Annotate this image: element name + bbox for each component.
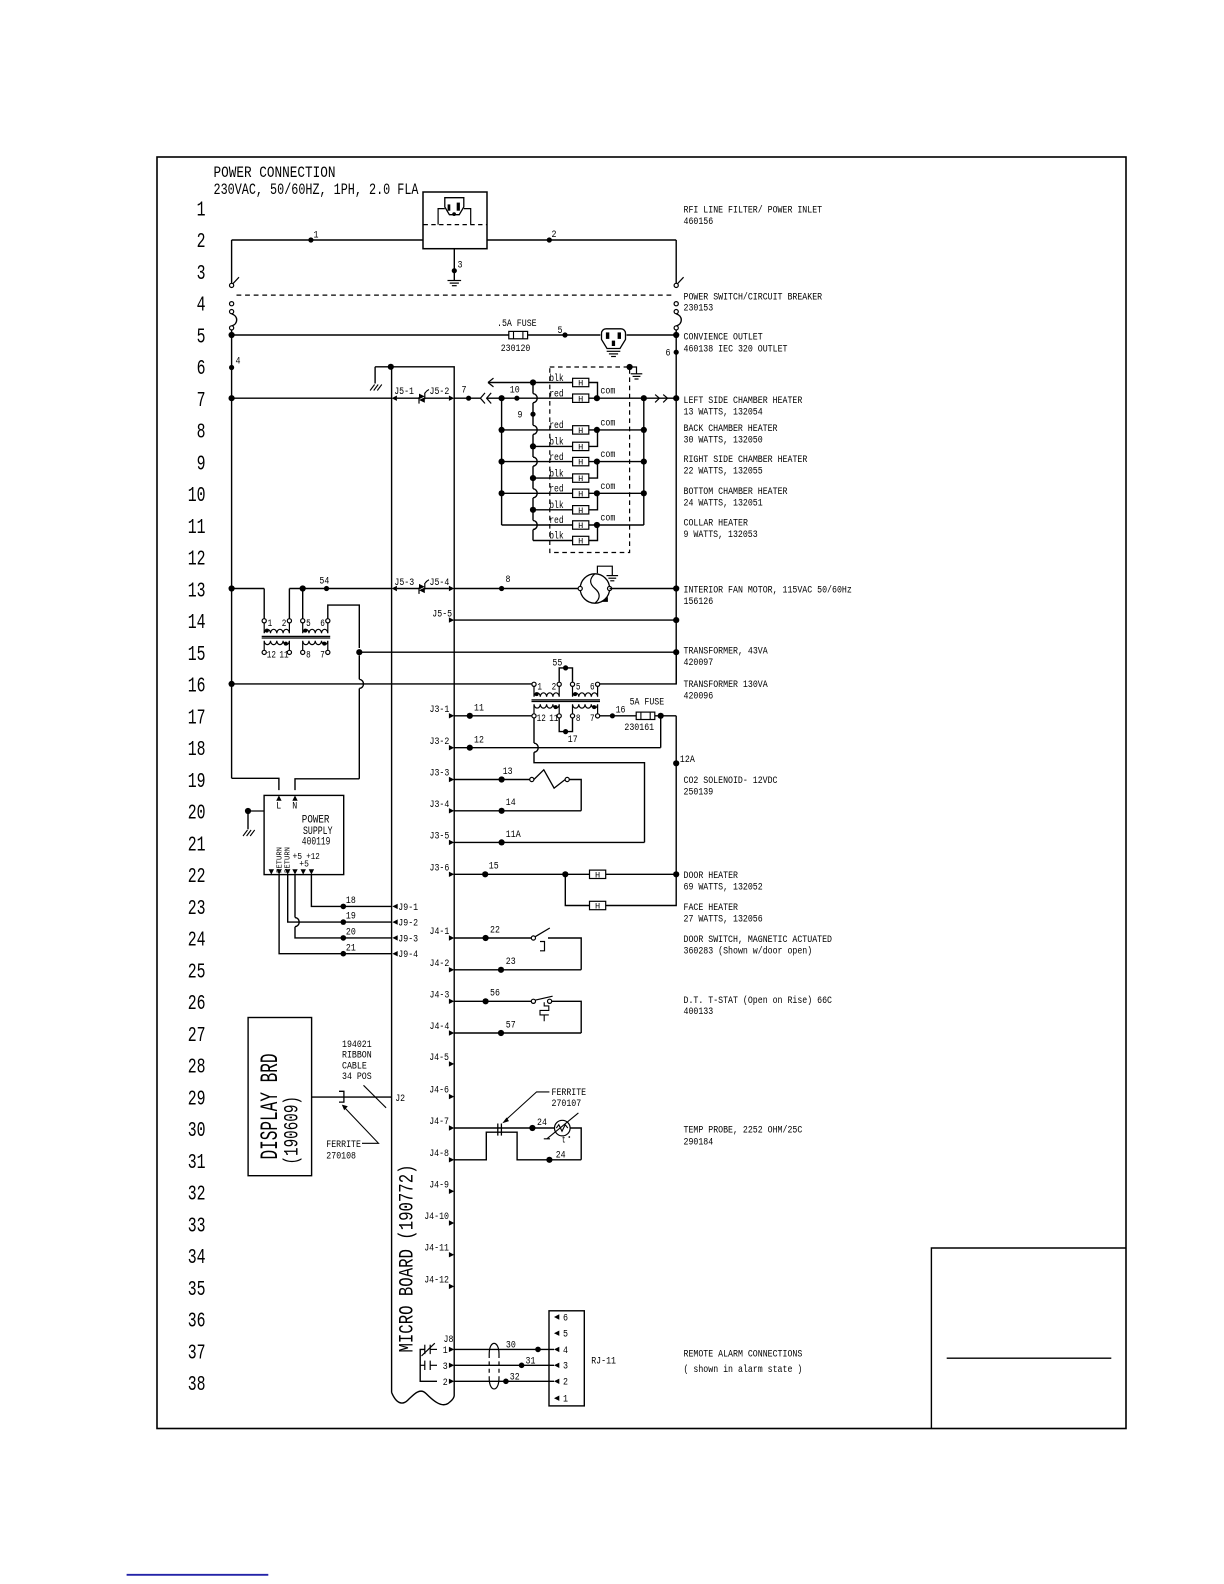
svg-text:33: 33 bbox=[188, 1216, 206, 1239]
svg-text:3: 3 bbox=[443, 1361, 448, 1373]
wire com back to com bus bbox=[597, 429, 644, 431]
svg-text:INTERIOR FAN MOTOR, 115VAC 50/: INTERIOR FAN MOTOR, 115VAC 50/60Hz bbox=[684, 584, 852, 596]
svg-text:16: 16 bbox=[616, 705, 626, 717]
junction row7 left bus bbox=[229, 395, 235, 401]
over-temp T-stat 400133 bbox=[531, 996, 552, 1021]
svg-text:1: 1 bbox=[537, 683, 542, 694]
svg-text:blk: blk bbox=[549, 531, 564, 543]
svg-text:15: 15 bbox=[188, 644, 206, 667]
junction row15 right bus bbox=[673, 649, 679, 655]
cable bundle oval bbox=[489, 1343, 499, 1389]
svg-text:RJ-11: RJ-11 bbox=[591, 1356, 616, 1368]
svg-text:6: 6 bbox=[563, 1312, 568, 1324]
wire PS RETURN to J9-4 bbox=[279, 875, 392, 954]
wire L1 row2 right bbox=[487, 239, 676, 241]
svg-text:H: H bbox=[578, 443, 583, 453]
svg-text:J5-1: J5-1 bbox=[394, 386, 414, 398]
node 12A bbox=[673, 760, 679, 766]
ground earth at RFI filter bbox=[448, 281, 462, 286]
heater H left-side blk bbox=[573, 378, 589, 388]
svg-text:H: H bbox=[578, 379, 583, 389]
svg-text:red: red bbox=[549, 515, 564, 527]
svg-text:21: 21 bbox=[188, 834, 206, 857]
wire row7 to heater bank bbox=[487, 397, 502, 399]
svg-text:com: com bbox=[600, 482, 615, 493]
dashed switch linkage bbox=[237, 294, 674, 296]
svg-text:7: 7 bbox=[590, 714, 595, 725]
svg-text:J9-3: J9-3 bbox=[398, 933, 418, 945]
svg-text:22: 22 bbox=[490, 924, 500, 936]
pin RJ-11 5 bbox=[554, 1331, 559, 1336]
RJ-11 connector block bbox=[549, 1311, 584, 1406]
junction 14 bbox=[499, 808, 505, 814]
wire triac to J5-4 bbox=[425, 588, 449, 590]
wire J4-8 through ferrite bbox=[454, 1132, 581, 1160]
ground earth fan motor bbox=[607, 576, 619, 581]
svg-text:32: 32 bbox=[188, 1184, 206, 1207]
svg-text:35: 35 bbox=[188, 1279, 206, 1302]
fuse F1 .5A 230120 bbox=[509, 331, 528, 338]
svg-text:1: 1 bbox=[563, 1394, 568, 1406]
svg-text:CO2 SOLENOID- 12VDC: CO2 SOLENOID- 12VDC bbox=[684, 775, 778, 787]
wire 12A branch down bbox=[675, 716, 677, 875]
svg-text:DOOR SWITCH, MAGNETIC ACTUATED: DOOR SWITCH, MAGNETIC ACTUATED bbox=[684, 934, 833, 946]
convenience outlet 460138 bbox=[602, 329, 626, 349]
svg-text:2: 2 bbox=[443, 1377, 448, 1389]
arrow blk wire end bbox=[488, 378, 494, 387]
svg-text:57: 57 bbox=[506, 1019, 516, 1031]
junction 11A bbox=[499, 839, 505, 845]
svg-text:J4-12: J4-12 bbox=[424, 1274, 449, 1286]
pin J4-9 bbox=[449, 1189, 454, 1194]
heater H face bbox=[590, 901, 606, 911]
svg-text:9: 9 bbox=[197, 453, 206, 476]
svg-text:10: 10 bbox=[188, 485, 206, 508]
J8 NC contact pin1 bbox=[422, 1343, 438, 1356]
svg-text:18: 18 bbox=[346, 895, 356, 907]
node 20 bbox=[341, 935, 347, 941]
svg-text:RFI LINE FILTER/ POWER INLET: RFI LINE FILTER/ POWER INLET bbox=[684, 205, 823, 217]
junction com right-side bbox=[594, 459, 600, 465]
svg-text:17: 17 bbox=[568, 734, 578, 746]
svg-text:36: 36 bbox=[188, 1311, 206, 1334]
pin J4-7 bbox=[449, 1125, 454, 1130]
wire row13 to J5-3 bbox=[289, 588, 391, 590]
svg-text:5: 5 bbox=[306, 619, 311, 630]
wire J5-4 to fan motor bbox=[454, 588, 580, 590]
wire H back blk to com bbox=[589, 430, 598, 447]
transformer T1 43VA 420097 bbox=[262, 619, 331, 662]
pin RJ-11 3 bbox=[554, 1363, 559, 1368]
pin J5-2 bbox=[449, 396, 454, 401]
junction 15 bbox=[482, 871, 488, 877]
wire PS +5 to J9-3 (hop over J9-2) bbox=[294, 875, 296, 918]
svg-text:2: 2 bbox=[552, 229, 557, 241]
svg-text:POWER CONNECTION: POWER CONNECTION bbox=[214, 164, 336, 182]
node 31 bbox=[519, 1363, 525, 1369]
connector chevrons row7 left bbox=[480, 393, 491, 404]
junction row7 right bus bbox=[673, 395, 679, 401]
pin J3-5 bbox=[449, 840, 454, 845]
heater H door bbox=[590, 870, 606, 880]
svg-text:12: 12 bbox=[188, 549, 206, 572]
node 3 bbox=[452, 268, 457, 273]
junction heater shield gnd bbox=[627, 364, 633, 370]
junction row16 left bus bbox=[229, 681, 235, 687]
svg-text:6: 6 bbox=[666, 348, 671, 360]
svg-text:22 WATTS, 132055: 22 WATTS, 132055 bbox=[684, 465, 763, 477]
svg-text:5: 5 bbox=[558, 325, 563, 337]
title block rule line bbox=[947, 1357, 1112, 1359]
wire row13 bus to T1 pin1 bbox=[232, 588, 265, 590]
svg-text:RETURN: RETURN bbox=[276, 847, 284, 873]
svg-text:COLLAR HEATER: COLLAR HEATER bbox=[684, 517, 748, 529]
junction 11 bbox=[467, 713, 473, 719]
svg-text:1: 1 bbox=[268, 619, 273, 630]
node 2 bbox=[547, 237, 552, 242]
node 54 bbox=[324, 586, 329, 591]
wire red right-side heater bbox=[502, 461, 597, 463]
heater H collar blk bbox=[573, 536, 589, 546]
node 8 bbox=[499, 586, 504, 591]
wire 55 bridge T2 pins 2-5 bbox=[559, 668, 572, 682]
svg-text:FERRITE: FERRITE bbox=[326, 1139, 361, 1151]
wire com row7 to right bus bbox=[597, 397, 676, 399]
heater H left-side red bbox=[573, 394, 589, 404]
svg-text:5A FUSE: 5A FUSE bbox=[630, 697, 665, 709]
wire J3-1 to T2 pin12 bbox=[454, 715, 532, 717]
title block bottom right bbox=[931, 1248, 1126, 1429]
J8 common bracket bbox=[420, 1349, 437, 1381]
svg-text:1: 1 bbox=[314, 230, 319, 242]
junction row15 bbox=[356, 649, 362, 655]
svg-text:3: 3 bbox=[197, 263, 206, 286]
svg-text:17: 17 bbox=[188, 707, 206, 730]
svg-text:7: 7 bbox=[462, 385, 467, 397]
svg-text:+5: +5 bbox=[299, 859, 309, 870]
svg-text:270108: 270108 bbox=[326, 1150, 356, 1162]
svg-text:com: com bbox=[600, 514, 615, 525]
svg-text:J9-4: J9-4 bbox=[398, 949, 418, 961]
hop over row16 bbox=[359, 679, 363, 688]
svg-text:12: 12 bbox=[474, 734, 484, 746]
pin J9-4 bbox=[392, 951, 397, 956]
pin J4-3 bbox=[449, 999, 454, 1004]
wire left bus bbox=[231, 335, 233, 778]
svg-text:2: 2 bbox=[197, 231, 206, 254]
heater H right-side blk bbox=[573, 474, 589, 484]
wire J4-2 bbox=[454, 969, 581, 971]
wire CO2 coil to J3-4 bbox=[569, 780, 581, 811]
svg-text:J9-2: J9-2 bbox=[398, 918, 418, 930]
svg-text:J4-4: J4-4 bbox=[430, 1021, 450, 1033]
svg-text:230VAC, 50/60HZ, 1PH, 2.0 FLA: 230VAC, 50/60HZ, 1PH, 2.0 FLA bbox=[214, 181, 419, 199]
wire J3-5 bbox=[454, 841, 644, 843]
pin J4-8 bbox=[449, 1157, 454, 1162]
svg-text:com: com bbox=[600, 450, 615, 461]
wire J4-3 bbox=[454, 1000, 531, 1002]
junction row14 right bus bbox=[673, 617, 679, 623]
svg-text:27 WATTS, 132056: 27 WATTS, 132056 bbox=[684, 914, 763, 926]
ferrite bar 2 bbox=[500, 1124, 502, 1136]
svg-text:230153: 230153 bbox=[684, 303, 714, 315]
ferrite bar 1 bbox=[497, 1124, 499, 1136]
wire blk bottom heater bbox=[533, 509, 573, 511]
svg-text:26: 26 bbox=[188, 993, 206, 1016]
wire blk back heater bbox=[533, 445, 573, 447]
svg-text:20: 20 bbox=[346, 927, 356, 939]
pin J8-1 bbox=[449, 1347, 454, 1352]
svg-text:MICRO BOARD (190772): MICRO BOARD (190772) bbox=[397, 1165, 420, 1353]
svg-text:red: red bbox=[549, 484, 564, 496]
svg-text:red: red bbox=[549, 452, 564, 464]
svg-text:4: 4 bbox=[197, 295, 206, 318]
wire J5-2 out bbox=[454, 397, 480, 399]
junction 57 bbox=[498, 1030, 504, 1036]
node 17 bbox=[563, 729, 568, 734]
svg-text:270107: 270107 bbox=[552, 1098, 582, 1110]
svg-text:30: 30 bbox=[506, 1339, 516, 1351]
wire L1 row2 left bbox=[232, 239, 423, 241]
pin J3-3 bbox=[449, 777, 454, 782]
svg-text:37: 37 bbox=[188, 1343, 206, 1366]
temp probe thermistor 290184 bbox=[544, 1113, 579, 1146]
node 30 bbox=[535, 1347, 541, 1353]
svg-text:12: 12 bbox=[267, 651, 276, 662]
wire J5-3 to triac bbox=[397, 588, 419, 590]
svg-text:J4-9: J4-9 bbox=[429, 1179, 449, 1191]
CO2 solenoid coil 250139 bbox=[530, 770, 570, 788]
wire J8-2 to RJ pin2 bbox=[454, 1380, 554, 1382]
svg-text:11: 11 bbox=[474, 703, 484, 715]
svg-text:LEFT SIDE CHAMBER HEATER: LEFT SIDE CHAMBER HEATER bbox=[684, 395, 803, 407]
wire T2 pin7 to fuse bbox=[600, 715, 637, 717]
wire blk left-side heater bbox=[488, 382, 573, 384]
svg-text:11: 11 bbox=[549, 714, 558, 725]
svg-text:BOTTOM CHAMBER HEATER: BOTTOM CHAMBER HEATER bbox=[684, 486, 788, 498]
wire com right-side to com bus bbox=[597, 461, 644, 463]
junction 24a bbox=[529, 1125, 535, 1131]
pin RJ-11 6 bbox=[554, 1314, 559, 1319]
svg-text:L: L bbox=[276, 801, 281, 813]
wire J8-1 to RJ pin4 bbox=[454, 1348, 554, 1350]
node 21 bbox=[341, 951, 347, 957]
svg-text:24 WATTS, 132051: 24 WATTS, 132051 bbox=[684, 497, 763, 509]
micro board torn bottom edge bbox=[392, 1391, 455, 1405]
wire red back heater bbox=[502, 429, 597, 431]
svg-text:J3-3: J3-3 bbox=[430, 768, 450, 780]
wire micro board left edge bbox=[391, 367, 393, 1393]
svg-text:( shown in alarm state ): ( shown in alarm state ) bbox=[684, 1364, 803, 1376]
pin PS L bbox=[276, 795, 281, 800]
svg-text:J5-2: J5-2 bbox=[430, 386, 450, 398]
wire left bus top segment bbox=[231, 240, 233, 283]
pin PS N bbox=[292, 795, 297, 800]
junction 13 bbox=[499, 776, 505, 782]
wire J3-4 bbox=[454, 810, 581, 812]
svg-text:460138 IEC 320 OUTLET: 460138 IEC 320 OUTLET bbox=[684, 344, 788, 356]
svg-text:J5-4: J5-4 bbox=[430, 577, 450, 589]
wire heater shield to ground bbox=[630, 367, 637, 374]
PS output pins bbox=[269, 869, 274, 874]
triac Q2 (J5-3/J5-4) bbox=[419, 580, 429, 594]
svg-text:460156: 460156 bbox=[684, 216, 714, 228]
svg-text:J3-5: J3-5 bbox=[430, 831, 450, 843]
wire J3-2 up to fuse out bbox=[660, 716, 662, 748]
svg-text:J3-2: J3-2 bbox=[430, 736, 450, 748]
svg-text:4: 4 bbox=[563, 1345, 568, 1357]
wire J4-7 to probe bbox=[454, 1127, 554, 1129]
node 32 bbox=[503, 1379, 509, 1385]
svg-text:REMOTE ALARM CONNECTIONS: REMOTE ALARM CONNECTIONS bbox=[684, 1348, 803, 1360]
svg-text:RETURN: RETURN bbox=[284, 847, 292, 873]
wire to PS N pin bbox=[295, 779, 359, 790]
wire probe to J4-8 loop bbox=[570, 1128, 581, 1160]
svg-text:21: 21 bbox=[346, 942, 356, 954]
wire com collar to com bus bbox=[597, 524, 644, 526]
wire row15 to right bus bbox=[359, 651, 676, 653]
node 5 bbox=[562, 332, 567, 337]
svg-text:400119: 400119 bbox=[302, 837, 331, 849]
pin J8-3 bbox=[449, 1363, 454, 1368]
svg-text:J4-8: J4-8 bbox=[429, 1148, 449, 1160]
svg-text:1: 1 bbox=[197, 199, 206, 222]
junction 56 bbox=[483, 998, 489, 1004]
pin J5-3 bbox=[392, 586, 397, 591]
svg-text:24: 24 bbox=[537, 1117, 547, 1129]
wire blk right-side heater bbox=[533, 477, 573, 479]
wire PS gnd stem bbox=[247, 811, 249, 829]
pin J4-10 bbox=[449, 1220, 454, 1225]
svg-text:8: 8 bbox=[506, 574, 511, 586]
node 1 bbox=[308, 237, 313, 242]
wire T2 pin12 to J3-5 bbox=[534, 752, 645, 842]
svg-text:7: 7 bbox=[320, 651, 325, 662]
svg-text:H: H bbox=[578, 426, 583, 436]
pin J5-4 bbox=[449, 586, 454, 591]
svg-text:31: 31 bbox=[526, 1355, 536, 1367]
pin RJ-11 2 bbox=[554, 1379, 559, 1384]
triac Q1 (J5-1/J5-2) bbox=[419, 390, 429, 404]
svg-text:TRANSFORMER 130VA: TRANSFORMER 130VA bbox=[684, 679, 769, 691]
row number column 1-38 bbox=[188, 199, 206, 1397]
svg-text:400133: 400133 bbox=[684, 1006, 714, 1018]
junction T1 pin5 tap bbox=[300, 585, 306, 591]
svg-text:6: 6 bbox=[320, 619, 325, 630]
svg-text:4: 4 bbox=[236, 356, 241, 368]
svg-text:20: 20 bbox=[188, 803, 206, 826]
svg-text:J3-1: J3-1 bbox=[430, 704, 450, 716]
svg-text:10: 10 bbox=[510, 385, 520, 397]
wire 17 bridge T2 pins 11-8 bbox=[559, 718, 572, 732]
wire heater blk bus (with hops) bbox=[532, 383, 534, 394]
fuse F2 5A 230161 bbox=[636, 712, 655, 719]
svg-text:8: 8 bbox=[197, 422, 206, 445]
wire heater red bus bbox=[501, 398, 503, 525]
svg-text:com: com bbox=[600, 418, 615, 429]
wire PS chassis gnd bbox=[248, 810, 264, 812]
svg-text:69 WATTS, 132052: 69 WATTS, 132052 bbox=[684, 882, 763, 894]
pin J4-6 bbox=[449, 1094, 454, 1099]
junction 12 bbox=[467, 745, 473, 751]
junction door heater right bus bbox=[673, 871, 679, 877]
wire right bus top segment bbox=[675, 240, 677, 283]
pin J3-2 bbox=[449, 745, 454, 750]
svg-text:13 WATTS, 132054: 13 WATTS, 132054 bbox=[684, 406, 763, 418]
svg-text:CONVIENCE OUTLET: CONVIENCE OUTLET bbox=[684, 332, 763, 344]
junction 24b bbox=[546, 1157, 552, 1163]
pin J4-1 bbox=[449, 935, 454, 940]
svg-text:H: H bbox=[578, 458, 583, 468]
ground earth at outlet bbox=[607, 351, 621, 356]
junction row13 left bus bbox=[229, 585, 235, 591]
svg-text:19: 19 bbox=[346, 911, 356, 923]
pin J5-5 bbox=[449, 617, 454, 622]
junction 23 bbox=[498, 967, 504, 973]
junction blk1 bbox=[530, 379, 536, 385]
svg-text:3: 3 bbox=[458, 260, 463, 272]
node 7 bbox=[466, 396, 471, 401]
svg-text:15: 15 bbox=[489, 861, 499, 873]
svg-text:29: 29 bbox=[188, 1088, 206, 1111]
svg-text:N: N bbox=[292, 801, 297, 813]
heater H right-side red bbox=[573, 457, 589, 467]
svg-text:H: H bbox=[578, 506, 583, 516]
wire ribbon cable to J2 bbox=[312, 1096, 392, 1098]
wire H right-side blk to com bbox=[589, 462, 598, 479]
chassis ground PS bbox=[243, 830, 255, 836]
pin J3-6 bbox=[449, 872, 454, 877]
display board 190609 bbox=[248, 1018, 312, 1176]
heater H bottom blk bbox=[573, 506, 589, 516]
svg-text:FACE HEATER: FACE HEATER bbox=[684, 902, 739, 914]
heater H back red bbox=[573, 426, 589, 436]
pin J4-2 bbox=[449, 967, 454, 972]
wire H blk1 to com bbox=[589, 383, 598, 399]
wire T2 pin6 to right bus bbox=[600, 655, 677, 684]
wire T1 pin6 to row15 bbox=[328, 605, 360, 648]
wire T-stat to J4-4 bbox=[552, 1001, 582, 1033]
svg-text:2: 2 bbox=[563, 1377, 568, 1389]
transformer T2 130VA 420096 bbox=[532, 682, 601, 725]
heater H bottom red bbox=[573, 489, 589, 499]
svg-text:9 WATTS, 132053: 9 WATTS, 132053 bbox=[684, 529, 758, 541]
svg-text:8: 8 bbox=[576, 714, 581, 725]
wire down from row15 junction bbox=[358, 655, 360, 679]
wire door switch to J4-2 bbox=[548, 938, 581, 970]
svg-text:blk: blk bbox=[549, 437, 564, 449]
junction com back bbox=[594, 427, 600, 433]
svg-text:24: 24 bbox=[556, 1149, 566, 1161]
svg-text:H: H bbox=[595, 902, 600, 912]
svg-text:30 WATTS, 132050: 30 WATTS, 132050 bbox=[684, 434, 763, 446]
svg-text:RIGHT SIDE CHAMBER HEATER: RIGHT SIDE CHAMBER HEATER bbox=[684, 454, 808, 466]
door switch 360283 bbox=[531, 928, 549, 951]
svg-text:J4-1: J4-1 bbox=[430, 926, 450, 938]
pin J3-4 bbox=[449, 808, 454, 813]
svg-text:23: 23 bbox=[506, 956, 516, 968]
svg-text:250139: 250139 bbox=[684, 787, 714, 799]
svg-text:(190609): (190609) bbox=[281, 1096, 304, 1165]
svg-text:J3-6: J3-6 bbox=[430, 863, 450, 875]
J8 NO contact pin3 bbox=[420, 1361, 437, 1370]
wire filter ground stem bbox=[453, 249, 455, 281]
wire fan motor to right bus bbox=[610, 588, 677, 590]
junction row5 left bus bbox=[229, 332, 235, 338]
svg-text:290184: 290184 bbox=[684, 1137, 714, 1149]
micro board outline (19077) bbox=[375, 367, 454, 1396]
svg-text:2: 2 bbox=[552, 683, 557, 694]
